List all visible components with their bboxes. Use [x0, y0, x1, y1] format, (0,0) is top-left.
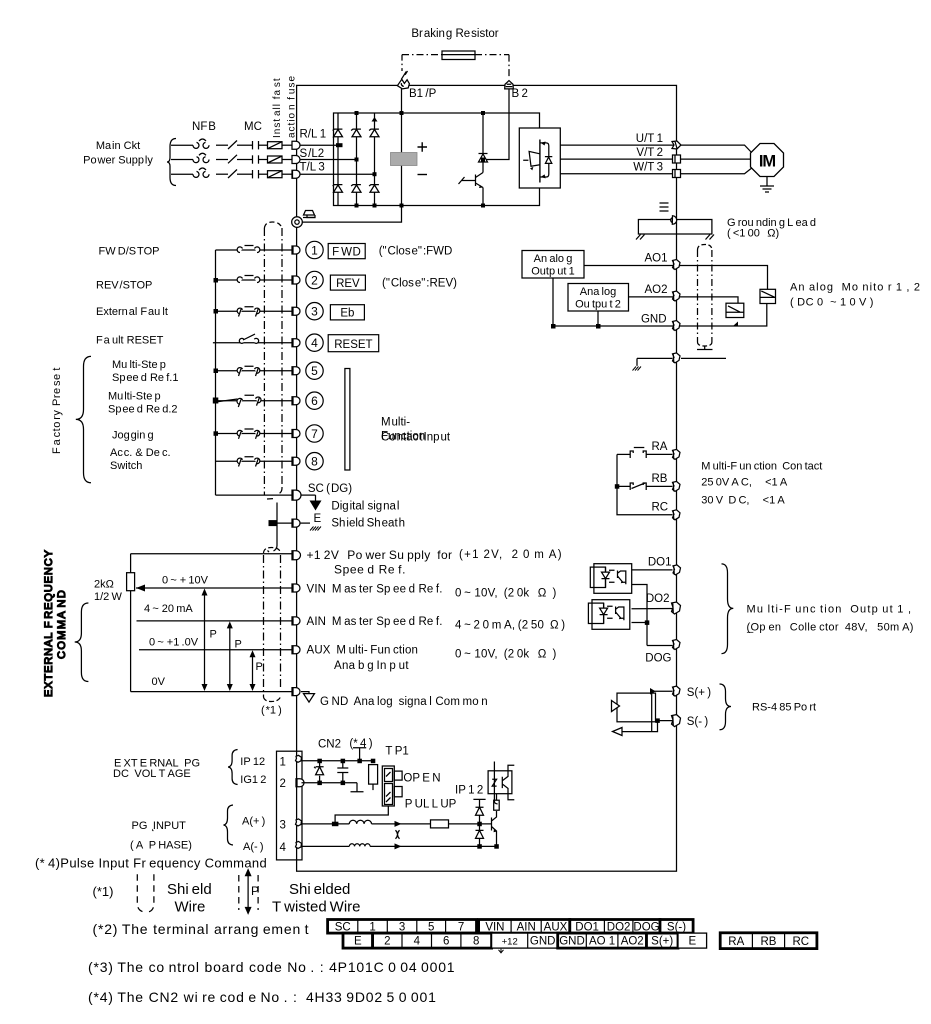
- terminal +12V: [292, 551, 301, 560]
- power T pin1: [353, 748, 366, 761]
- wire shield E right: [681, 357, 726, 359]
- analog shield cap bottom: [264, 696, 281, 702]
- optocoupler PC1 internals: [590, 567, 605, 587]
- terminal RA: [673, 449, 681, 459]
- wire AUX: [139, 649, 292, 651]
- terminal table relay group: [720, 933, 817, 949]
- box FWD: [328, 244, 365, 259]
- svg-text:DO2: DO2: [646, 593, 670, 605]
- inductor L2: [349, 844, 370, 847]
- rectifier block box: [334, 113, 540, 206]
- svg-text:A(+ ): A(+ ): [242, 815, 265, 827]
- resistor R2: [369, 765, 378, 785]
- svg-text:Extern al F au lt: Extern al F au lt: [96, 306, 168, 318]
- contact gap T: [252, 170, 254, 178]
- terminal GNDr: [673, 321, 681, 331]
- svg-text:(*4) The CN2 wi re cod e No .: (*4) The CN2 wi re cod e No . : 4H33 9D0…: [88, 989, 437, 1005]
- svg-text:Outp ut 1: Outp ut 1: [531, 266, 575, 278]
- RS485 receiver triangle: [612, 701, 620, 712]
- wire SC to arrow: [302, 494, 316, 496]
- brace factory preset: [76, 356, 91, 482]
- svg-text:REV: REV: [336, 278, 360, 290]
- svg-text:A(- ): A(- ): [243, 841, 264, 853]
- optocoupler PC3: [488, 771, 512, 794]
- svg-text:GND: GND: [559, 936, 585, 948]
- svg-text:25 0V A C, <1 A: 25 0V A C, <1 A: [701, 477, 788, 489]
- analog shield dash line A: [263, 555, 265, 697]
- svg-text:Jog gin g: Jog gin g: [112, 430, 154, 442]
- resistor R3: [431, 820, 449, 828]
- switch SW2: [237, 276, 260, 283]
- svg-text:1/2 W: 1/2 W: [94, 591, 122, 603]
- svg-text:Ac c. & De c.: Ac c. & De c.: [110, 447, 171, 459]
- TP1 tab pullup: [394, 787, 402, 797]
- svg-text:EXTERNAL F REQUENCY: EXTERNAL F REQUENCY: [43, 549, 55, 697]
- wire RA: [646, 453, 672, 455]
- shield drain wire: [697, 346, 713, 350]
- terminal T/L3: [292, 170, 300, 178]
- inverter block U1: [519, 128, 560, 188]
- wire pin3: [302, 823, 350, 825]
- capacitor plus: [418, 142, 428, 152]
- circled 8: [306, 453, 323, 470]
- TP1 tab open: [394, 771, 402, 780]
- terminal GND: [292, 688, 300, 696]
- cap C4: [337, 761, 348, 783]
- terminal DO1: [673, 565, 681, 575]
- wire shield E left: [637, 358, 673, 366]
- fuse T: [268, 171, 283, 178]
- brace IP12 IG12: [228, 750, 238, 785]
- svg-text:MC: MC: [244, 121, 262, 133]
- brace A+ A-: [224, 805, 234, 845]
- terminal S+: [673, 686, 681, 696]
- svg-text:Dig ital sig na l: Dig ital sig na l: [331, 501, 399, 513]
- svg-text:P UL L UP: P UL L UP: [405, 799, 457, 811]
- svg-text:RC: RC: [652, 501, 669, 513]
- switch SW8: [237, 457, 260, 467]
- terminal 5: [292, 367, 300, 375]
- meter M2: [726, 303, 744, 317]
- terminal table row1 group 2: [479, 920, 570, 934]
- wire pin4 cont: [370, 845, 496, 847]
- switch common bus: [215, 250, 217, 495]
- terminal 8: [292, 457, 300, 465]
- P arrow 2: [229, 625, 231, 687]
- box RESET: [328, 335, 379, 352]
- wire W/T3: [560, 173, 676, 175]
- svg-text:R/L 1: R/L 1: [300, 129, 327, 141]
- breaker NFB pole S: [193, 153, 209, 162]
- switch SW5: [237, 366, 260, 376]
- fuse R: [268, 142, 283, 149]
- wire E left: [273, 522, 292, 524]
- terminal B1/P: [397, 79, 409, 89]
- terminal SC: [292, 490, 301, 500]
- wire R/L1 into bridge: [300, 144, 338, 146]
- capacitor minus: [418, 174, 428, 176]
- svg-text:F a ult RESET: F a ult RESET: [96, 335, 164, 347]
- brake IGBT Q1: [459, 173, 484, 206]
- contact RA: [630, 448, 646, 459]
- svg-text:W/T 3: W/T 3: [633, 162, 663, 174]
- terminal table row2 group 5: [647, 933, 679, 948]
- wire TP1 to pin3: [335, 806, 388, 824]
- svg-text:(*3) The co ntrol board code N: (*3) The co ntrol board code No . : 4P10…: [88, 959, 455, 975]
- pot resistor 2k: [130, 554, 132, 573]
- contact gap R: [252, 141, 254, 149]
- terminal E shield: [292, 519, 300, 527]
- terminal table row1 group 4: [660, 920, 693, 934]
- svg-text:B 2: B 2: [512, 88, 528, 100]
- wire GND out: [553, 278, 767, 326]
- wire B2 drop: [483, 89, 509, 160]
- svg-text:AIN M as ter Sp ee d Re f.: AIN M as ter Sp ee d Re f.: [307, 616, 443, 628]
- svg-text:AO1: AO1: [644, 253, 667, 265]
- terminal pin1: [296, 755, 302, 762]
- input line 2: [216, 279, 293, 281]
- box Analog Output 2: [568, 284, 629, 312]
- terminal grounding lead: [671, 216, 677, 225]
- junction opto2: [645, 620, 650, 625]
- PE ground terminal: [292, 217, 303, 228]
- optocoupler PC1 box: [594, 564, 632, 594]
- svg-text:RA: RA: [728, 936, 744, 948]
- svg-text:Mu lti-Ste p: Mu lti-Ste p: [112, 359, 166, 371]
- svg-text:RB: RB: [761, 936, 777, 948]
- wire 3-phase S line: [171, 159, 193, 161]
- terminal W/T3: [673, 170, 681, 178]
- svg-text:0 ~ 10V, (2 0k Ω ): 0 ~ 10V, (2 0k Ω ): [455, 649, 557, 661]
- diode column 1: [337, 113, 339, 206]
- terminal AUX: [292, 646, 300, 654]
- wire pin3 cont: [372, 823, 431, 825]
- terminal VIN: [292, 584, 300, 592]
- contactor MC pole R: [228, 141, 237, 150]
- wire T/L3 into bridge: [300, 173, 375, 175]
- svg-text:Inst all fa st: Inst all fa st: [272, 77, 283, 138]
- svg-text:GND: GND: [530, 936, 556, 948]
- box Eb: [330, 305, 364, 320]
- optocoupler PC2 internals: [588, 603, 603, 623]
- wire V/T2: [560, 158, 676, 160]
- resistor R4: [494, 800, 500, 810]
- shield dash-dot line B: [281, 228, 283, 488]
- svg-text:PG ̨INPUT: PG ̨INPUT: [132, 820, 187, 832]
- svg-text:0 ~ +1 .0V: 0 ~ +1 .0V: [149, 637, 199, 649]
- svg-text:1: 1: [280, 756, 286, 768]
- terminal DO2: [672, 602, 681, 614]
- svg-text:S(- ): S(- ): [687, 716, 709, 728]
- terminal RB: [673, 481, 681, 491]
- svg-text:5: 5: [311, 364, 318, 378]
- input line 5: [216, 370, 293, 372]
- shield capsule dash-dot right: [711, 250, 713, 342]
- shield solid segment: [274, 503, 278, 552]
- wire DO1: [632, 569, 673, 571]
- twist arrow 4: [395, 843, 402, 849]
- wire opto1 emitter: [632, 585, 673, 646]
- svg-text:AO 1: AO 1: [589, 936, 615, 948]
- svg-text:7: 7: [458, 921, 464, 933]
- relay contact bus: [617, 454, 673, 514]
- terminal pin4: [296, 841, 302, 848]
- digital signal arrow: [315, 495, 317, 501]
- svg-text:0 ~ 10V, (2 0k Ω ): 0 ~ 10V, (2 0k Ω ): [455, 588, 557, 600]
- svg-text:SC ( DG): SC ( DG): [308, 483, 352, 495]
- wire 0V bottom: [131, 691, 292, 693]
- svg-text:FW D/S TOP: FW D/S TOP: [99, 246, 160, 258]
- circled 5: [306, 362, 323, 379]
- junction S-: [655, 718, 660, 723]
- analog ground triangle: [301, 692, 309, 694]
- terminal DOG: [673, 640, 681, 650]
- shield dot: [268, 551, 270, 553]
- wire 3-phase T line: [171, 173, 193, 175]
- svg-text:Ou tpu t 2: Ou tpu t 2: [575, 299, 621, 311]
- motor IM: [751, 144, 784, 177]
- svg-text:2: 2: [280, 778, 286, 790]
- svg-text:REV /STOP: REV /STOP: [96, 280, 152, 292]
- svg-text:Wire: Wire: [175, 899, 206, 916]
- input line 6: [216, 400, 293, 402]
- svg-text:3: 3: [399, 921, 405, 933]
- contact RB: [630, 483, 646, 490]
- terminal shield E right: [673, 353, 681, 363]
- svg-text:P: P: [256, 661, 263, 673]
- IG rail T: [351, 783, 364, 792]
- contact gap S: [252, 155, 254, 163]
- wire S/L2 into bridge: [300, 159, 357, 161]
- svg-text:7: 7: [311, 427, 318, 441]
- svg-text:( DC 0 ~ 1 0 V ): ( DC 0 ~ 1 0 V ): [790, 297, 874, 309]
- svg-text:( <1 00 Ω): ( <1 00 Ω): [727, 228, 779, 240]
- shield capsule dash-dot left: [697, 250, 699, 342]
- wire AO2: [629, 297, 739, 303]
- terminal table row2 group 6: [678, 933, 707, 948]
- capacitor C bus: [391, 153, 418, 166]
- svg-text:4: 4: [414, 936, 421, 948]
- main unit box: [297, 85, 677, 871]
- contactor MC pole S: [228, 155, 237, 164]
- twisted pair dashed right: [257, 875, 259, 910]
- contactor MC pole T: [228, 170, 237, 179]
- svg-text:Mu lti-F unc tion Outp ut 1 ,: Mu lti-F unc tion Outp ut 1 ,: [747, 604, 913, 616]
- shield capsule bottom cap: [698, 342, 712, 346]
- svg-text:DO2: DO2: [607, 921, 631, 933]
- pot circuit top wire: [131, 553, 292, 555]
- circled 4: [306, 334, 323, 351]
- switch SW4: [239, 334, 258, 343]
- shield wire dashed capsule left: [137, 874, 143, 912]
- svg-text:G ND Ana log signa l Com mo: G ND Ana log signa l Com mo n: [320, 696, 488, 708]
- circled 2: [306, 271, 323, 288]
- svg-text:(*1): (*1): [93, 884, 114, 899]
- svg-text:6: 6: [443, 936, 449, 948]
- terminal AO2: [673, 291, 681, 301]
- switch SW1: [237, 246, 260, 253]
- junction dot B2-IGBT: [481, 158, 485, 162]
- svg-text:Sp ee d Re d.2: Sp ee d Re d.2: [108, 404, 178, 416]
- terminal RC: [673, 510, 681, 520]
- svg-text:An alog Mo nito r 1 , 2: An alog Mo nito r 1 , 2: [790, 282, 921, 294]
- wire opto2 emitter: [632, 622, 648, 624]
- box REV: [330, 275, 365, 290]
- svg-text:(* 4)Pulse Input Fr equency Co: (* 4)Pulse Input Fr equency Command: [35, 856, 267, 871]
- wire U/T1: [560, 144, 676, 146]
- wire AO1: [584, 266, 768, 290]
- svg-text:Spee d Re f.: Spee d Re f.: [334, 563, 406, 577]
- svg-text:1: 1: [369, 921, 375, 933]
- terminal B2: [505, 81, 514, 89]
- terminal table row2 group 1: [343, 933, 373, 948]
- motor ground: [760, 177, 774, 193]
- svg-text:COMMA ND: COMMA ND: [56, 589, 68, 659]
- svg-text:DC VOL T AGE: DC VOL T AGE: [113, 768, 191, 780]
- svg-text:0V: 0V: [152, 676, 166, 688]
- svg-text:RC: RC: [792, 936, 809, 948]
- svg-text:IG1 2: IG1 2: [240, 774, 266, 786]
- svg-text:(*2) The terminal arrang emen: (*2) The terminal arrang emen t: [93, 921, 310, 937]
- svg-text:DO1: DO1: [648, 556, 672, 568]
- svg-text:Ana b g In p ut: Ana b g In p ut: [334, 660, 409, 672]
- wire RB: [617, 485, 673, 487]
- svg-text:S(+ ): S(+ ): [687, 687, 712, 699]
- circled 1: [306, 241, 323, 258]
- svg-text:DO1: DO1: [575, 921, 599, 933]
- diode D6 bottom: [369, 185, 379, 193]
- twist arrow 3: [395, 821, 402, 827]
- ground hatch E: [310, 527, 321, 531]
- ground hatch shield E: [633, 367, 642, 371]
- brace main ckt supply: [167, 139, 176, 186]
- wire E right: [301, 522, 311, 524]
- svg-text:(" Clos e" :REV): (" Clos e" :REV): [382, 278, 457, 290]
- svg-text:F a cto ry Pre se t: F a cto ry Pre se t: [51, 367, 63, 454]
- zener D7: [319, 761, 321, 783]
- diode column 3: [374, 113, 376, 206]
- svg-text:30 V D C, <1 A: 30 V D C, <1 A: [701, 495, 785, 507]
- svg-text:IP 1 2: IP 1 2: [455, 785, 483, 797]
- wire pin3 to transistor: [449, 823, 492, 825]
- TP1 block: [382, 766, 394, 806]
- switch SW7: [237, 429, 260, 439]
- svg-text:RESET: RESET: [334, 339, 372, 351]
- svg-text:Switch: Switch: [110, 460, 142, 472]
- svg-text:6: 6: [311, 394, 318, 408]
- twisted pair dashed left: [238, 875, 240, 910]
- terminal pin3: [296, 819, 302, 826]
- svg-text:S(-): S(-): [667, 921, 686, 933]
- svg-text:4 ~ 20 mA: 4 ~ 20 mA: [144, 603, 193, 615]
- diode D5 bottom: [351, 185, 361, 193]
- diode D9: [479, 824, 481, 847]
- switch SW3: [237, 307, 260, 317]
- circled 3: [306, 303, 323, 320]
- terminal table row1 group 1: [328, 920, 477, 934]
- terminal 2: [292, 276, 300, 284]
- analog shield cap top: [264, 548, 281, 554]
- svg-text:RS-4 85 Po rt: RS-4 85 Po rt: [752, 702, 816, 714]
- svg-text:AO2: AO2: [644, 284, 667, 296]
- terminal AO1: [673, 260, 681, 270]
- svg-text:AUX: AUX: [544, 921, 568, 933]
- terminal table row2 group 2: [373, 933, 492, 948]
- terminal table row2 group 4: [558, 933, 647, 948]
- ground bars Xi: [660, 203, 669, 211]
- terminal V/T2: [673, 155, 681, 163]
- terminal R/L1: [292, 141, 300, 149]
- terminal 3: [292, 307, 300, 315]
- diode D2 top: [351, 129, 361, 137]
- svg-text:DOG: DOG: [645, 653, 671, 665]
- junction dots on bus: [213, 278, 219, 436]
- svg-text:Shi elded: Shi elded: [289, 881, 350, 898]
- svg-text:(" Clos e" :FWD: (" Clos e" :FWD: [379, 246, 453, 258]
- svg-text:Po wer Supp ly: Po wer Supp ly: [83, 155, 153, 167]
- svg-text:Ma in Ckt: Ma in Ckt: [96, 140, 140, 152]
- terminal table row2 group 3: [492, 933, 558, 948]
- svg-text:S /L2: S /L2: [300, 148, 325, 160]
- svg-text:2kΩ: 2kΩ: [94, 579, 114, 591]
- svg-text:4: 4: [311, 336, 318, 350]
- svg-text:Shi eld: Shi eld: [167, 881, 212, 898]
- junction dots bridge: [336, 111, 404, 208]
- svg-text:B1 /P: B1 /P: [409, 88, 437, 100]
- diode D8: [476, 807, 484, 815]
- svg-text:AIN: AIN: [517, 921, 536, 933]
- ground hatch right: [706, 235, 715, 240]
- wire motor V: [681, 158, 751, 160]
- RS485 out arrow: [613, 728, 623, 736]
- terminal 6: [292, 397, 300, 405]
- svg-text:SC: SC: [335, 921, 351, 933]
- svg-text:3: 3: [311, 305, 318, 319]
- wire motor W: [681, 167, 753, 174]
- twisted pair arrow: [247, 873, 249, 912]
- svg-text:GND: GND: [641, 314, 667, 326]
- svg-text:Co ntac t Inp ut: Co ntac t Inp ut: [381, 432, 451, 444]
- IP12 T bar: [473, 799, 485, 807]
- junction RB: [615, 484, 620, 489]
- svg-text:E: E: [354, 936, 362, 948]
- terminal S-: [672, 715, 681, 727]
- svg-text:Sp ee d Re f.1: Sp ee d Re f.1: [112, 372, 178, 384]
- circled 7: [306, 425, 323, 442]
- svg-text:P: P: [251, 884, 259, 898]
- junction dots analog: [551, 322, 738, 329]
- input line 7: [216, 433, 293, 435]
- switch SW6: [216, 395, 261, 407]
- braking resistor symbol: [442, 51, 475, 60]
- twist cap: [396, 830, 400, 839]
- svg-text:P: P: [210, 629, 217, 641]
- terminal U/T1: [672, 141, 681, 149]
- box Analog Output 1: [522, 251, 584, 279]
- junction pin4 dots: [477, 844, 482, 849]
- wire DO2: [632, 608, 673, 610]
- terminal 1: [292, 246, 300, 254]
- svg-text:+12: +12: [502, 937, 518, 948]
- wire dash-dot right to B2: [475, 54, 509, 56]
- svg-text:S(+): S(+): [651, 936, 673, 948]
- input line 4: [213, 342, 292, 344]
- junction dots pin1 line: [317, 759, 375, 785]
- svg-text:( A P HASE): ( A P HASE): [130, 839, 192, 851]
- brace RS485: [720, 684, 732, 730]
- svg-text:4 ~ 2 0 m A, (2 50 Ω ): 4 ~ 2 0 m A, (2 50 Ω ): [455, 620, 565, 632]
- svg-text:RA: RA: [652, 441, 668, 453]
